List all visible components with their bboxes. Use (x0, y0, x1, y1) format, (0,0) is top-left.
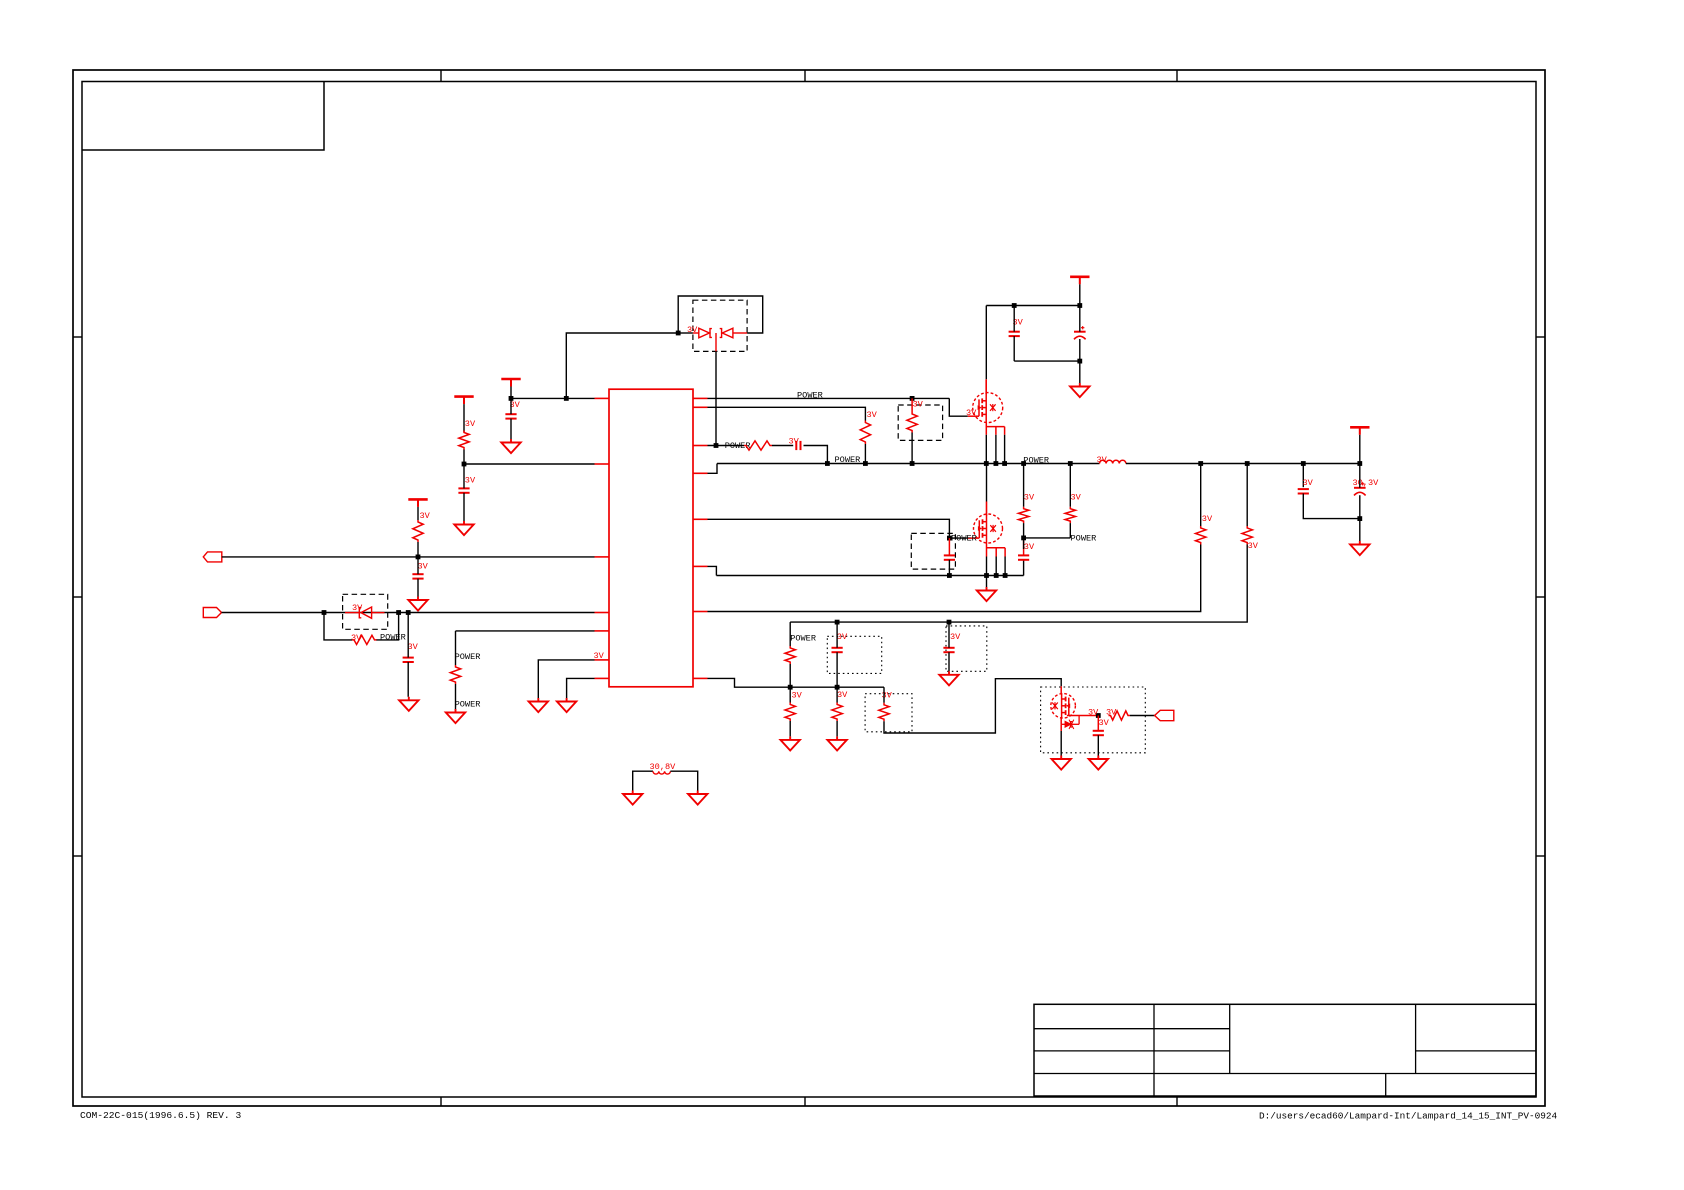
resistor R10 (1018, 507, 1028, 523)
junction pin2 (462, 462, 467, 467)
junction pin3R (714, 443, 719, 448)
wire R3 bypass path (324, 613, 352, 640)
wire Q1 sources to rail (985, 435, 987, 464)
wire POWER resistor corner (789, 622, 791, 646)
junction D1 right (396, 610, 401, 615)
svg-text:3V: 3V (1099, 718, 1110, 728)
power symbol VCC3 (408, 499, 427, 507)
svg-text:3V: 3V (950, 632, 961, 642)
inductor L1 (1100, 460, 1126, 463)
svg-text:POWER: POWER (797, 391, 823, 401)
junction rail Q1s3 (1002, 461, 1007, 466)
ground below Q2 (977, 587, 996, 601)
resistor R11 (1065, 507, 1075, 523)
connector P3 output (1155, 710, 1174, 720)
diode D3 source-gate (1061, 716, 1079, 730)
wire C9 top to junction (1023, 538, 1025, 556)
junction C6 top (1012, 303, 1017, 308)
capacitor C2 (458, 488, 469, 492)
wire VCC4 down (1079, 284, 1081, 305)
dashed box around C8 (911, 533, 955, 569)
wire pin3R net (708, 445, 745, 447)
junction Q3 gate net (1096, 713, 1101, 718)
ground right (1350, 541, 1369, 555)
wire R13 column (1246, 464, 1248, 527)
wire pin1 left horizontal (511, 397, 595, 399)
junction rail R11 (1068, 461, 1073, 466)
connector P2 input (203, 608, 221, 618)
junction rail C10 (1301, 461, 1306, 466)
resistor R6 (911, 398, 913, 412)
svg-text:3V: 3V (1097, 455, 1108, 465)
wire pin7 left then down (567, 678, 595, 698)
IC U1 right pin stubs (693, 398, 708, 678)
wire C3 leads (417, 557, 419, 574)
wire R1 to junction (463, 450, 465, 464)
svg-text:3V: 3V (1202, 514, 1213, 524)
svg-text:3V: 3V (867, 410, 878, 420)
wire TVS left lead black (678, 332, 693, 334)
dashed box around TVS D2 (693, 300, 747, 351)
power symbol VCC4 (1070, 277, 1089, 285)
border zone tick right 1 (1536, 336, 1545, 338)
wire C10 column (1302, 464, 1304, 488)
title block row line 2 (1034, 1050, 1230, 1052)
wire R11 leads (1069, 464, 1071, 507)
title block full row line (1034, 1073, 1536, 1075)
wire pin2R horizontal (708, 407, 866, 420)
svg-text:3V: 3V (465, 476, 476, 486)
junction Q2 gate net (947, 536, 952, 541)
svg-text:3V: 3V (1024, 542, 1035, 552)
border zone tick left 1 (73, 336, 82, 338)
wire Q3 source to ground (1060, 724, 1062, 731)
diode D1 (345, 607, 385, 618)
ground below C13 (939, 671, 958, 685)
svg-text:3V: 3V (789, 436, 800, 446)
wire C1 leads (510, 398, 512, 414)
wire C14 leads (1097, 716, 1099, 731)
wire C8 leads (948, 538, 950, 555)
wire lower rail (716, 575, 1023, 577)
border zone tick bottom 1 (440, 1097, 442, 1106)
dotted box around C13 (946, 626, 987, 671)
dotted box around C12 (827, 636, 881, 673)
wire R12 column (1200, 464, 1202, 527)
wire R4 to ground (455, 684, 457, 709)
wire Q1 gate stub red (968, 415, 979, 417)
svg-text:3V: 3V (465, 419, 476, 429)
junction C12 top (835, 620, 840, 625)
wire R18 to connector (1130, 715, 1155, 717)
svg-text:POWER: POWER (380, 633, 406, 643)
wire Q2 drain (986, 464, 988, 502)
wire pin3 from connector P1 (222, 556, 595, 558)
wire pin5R to Q2 gate (708, 519, 968, 538)
wire R17 to Q3 drain (884, 679, 1061, 733)
wire pin1R POWER net (708, 397, 950, 399)
ground bead right (688, 791, 707, 805)
ground below C3 (408, 597, 427, 611)
resistor R2 (413, 520, 423, 542)
junction lower rail Q2s1 (984, 573, 989, 578)
junction pin3 net (416, 555, 421, 560)
svg-text:3V: 3V (1024, 492, 1035, 502)
svg-text:3V: 3V (1248, 541, 1259, 551)
border zone tick left 2 (73, 596, 82, 598)
ground below C1 (501, 439, 520, 453)
junction rail C5 (825, 461, 830, 466)
junction rail R12 (1198, 461, 1203, 466)
wire Q2 gate stub red (968, 537, 980, 539)
connector P1 input (203, 552, 222, 562)
svg-text:3V: 3V (408, 642, 419, 652)
junction rail Q1s1 (984, 461, 989, 466)
wire VCC2 to R1 (463, 404, 465, 432)
wire TVS outer loop (678, 296, 763, 333)
capacitor C9 (1018, 555, 1029, 559)
resistor R12 (1196, 526, 1206, 545)
junction R14 bottom (788, 685, 793, 690)
title block vertical divider 2 (1229, 1004, 1231, 1073)
junction VCC4 (1077, 303, 1082, 308)
wire C7 leads (1079, 306, 1081, 332)
svg-text:POWER: POWER (455, 652, 481, 662)
ground bead left (623, 791, 642, 805)
wire R15 leads (789, 687, 791, 702)
wire R16 leads (836, 687, 838, 702)
wire VCC3 to R2 (417, 507, 419, 520)
capacitor C5 (796, 441, 800, 450)
svg-text:3V: 3V (837, 632, 848, 642)
junction R10 C9 (1021, 536, 1026, 541)
junction C13 top (947, 620, 952, 625)
outer border frame (73, 70, 1545, 1106)
svg-text:3V: 3V (913, 400, 924, 410)
ground pin7 (557, 698, 576, 712)
junction C7 bottom (1077, 359, 1082, 364)
svg-text:3V: 3V (418, 562, 429, 572)
title block outline (1034, 1004, 1536, 1096)
ground below R4 (446, 709, 465, 723)
capacitor C10 (1298, 489, 1309, 493)
capacitor C12 (832, 648, 843, 652)
border zone tick bottom 3 (1176, 1097, 1178, 1106)
resistor R4 (450, 665, 460, 684)
wire C11 leads (1359, 464, 1361, 488)
capacitor C14 (1093, 731, 1104, 735)
wire power VCC1 to pin1 net (510, 387, 512, 399)
svg-text:3V: 3V (687, 325, 698, 335)
wire R13 down to mid rail (790, 545, 1247, 623)
capacitor C7 electrolytic (1074, 326, 1086, 339)
svg-text:POWER: POWER (455, 700, 481, 710)
dashed box around R6 (898, 405, 942, 440)
capacitor C3 (412, 574, 423, 578)
ground pin6 (529, 698, 548, 712)
wire R2 to junction (417, 542, 419, 557)
svg-text:POWER: POWER (1023, 455, 1049, 465)
wire R14 to bottom rail (789, 664, 791, 687)
border zone tick left 3 (73, 855, 82, 857)
border zone tick right 3 (1536, 855, 1545, 857)
wire C9 column (1023, 560, 1025, 576)
capacitor C4 (403, 658, 414, 662)
wire pin8R to bottom rail (708, 678, 885, 687)
capacitor C1 (505, 414, 516, 418)
wire POWER rail right part (1126, 463, 1360, 465)
resistor R3 (352, 635, 377, 644)
svg-text:POWER: POWER (835, 455, 861, 465)
title block vertical divider 3 (1415, 1004, 1417, 1073)
ground below C2 (454, 521, 473, 535)
wire C11 to ground (1359, 519, 1361, 541)
svg-text:30,3V: 30,3V (1353, 478, 1380, 488)
junction rail R6 (910, 461, 915, 466)
ground below C14 (1089, 756, 1108, 770)
svg-text:3V: 3V (1071, 492, 1082, 502)
junction C12 bottom (835, 685, 840, 690)
junction rail R5 (863, 461, 868, 466)
wire Q2 source bundle (987, 543, 1006, 557)
capacitor C11 electrolytic (1354, 482, 1366, 495)
wire pin2 left horizontal (464, 463, 595, 465)
ground below R15 (781, 736, 800, 750)
wire Q2 sources to lower rail (986, 557, 988, 576)
wire R6 to rail (911, 433, 913, 464)
wire Q3 source down (1060, 718, 1062, 724)
border zone tick bottom 2 (804, 1097, 806, 1106)
dashed box around diode D1 (343, 594, 388, 629)
top-left revision box (82, 82, 324, 151)
capacitor C13 (943, 648, 954, 652)
wire bead left (633, 771, 653, 790)
junction rail R13 (1245, 461, 1250, 466)
wire C6 leads (1013, 306, 1015, 332)
wire C2 leads (463, 464, 465, 488)
border zone tick top 1 (440, 70, 442, 82)
wire POWER rail (717, 463, 1100, 465)
capacitor C8 (944, 555, 955, 559)
wire R5 to rail (864, 444, 866, 464)
border zone tick top 3 (1176, 70, 1178, 82)
title block right column row line (1416, 1050, 1536, 1052)
power symbol VCC1 (501, 379, 520, 387)
wire C10 to C11 bottom link (1303, 494, 1360, 519)
wire pin1R jog down to Q1 gate (949, 398, 968, 416)
wire C12 leads (836, 622, 838, 648)
ground below C4 (399, 697, 418, 711)
wire bottom cap rail (1014, 360, 1080, 362)
junction rail Q1s2 (994, 461, 999, 466)
svg-text:3V: 3V (594, 651, 605, 661)
wire Q1 drain from top corner (985, 306, 987, 380)
ferrite bead FB1 (653, 771, 670, 774)
transistor Q2 (974, 514, 1003, 543)
wire C5 to rail (804, 446, 828, 464)
wire Q3 drain red (1060, 686, 1062, 693)
border zone tick top 2 (804, 70, 806, 82)
resistor R18 (1109, 711, 1131, 720)
junction pin1-VCC1 (509, 396, 514, 401)
ground below Q3 (1052, 756, 1071, 770)
svg-text:COM-22C-015(1996.6.5) REV. 3: COM-22C-015(1996.6.5) REV. 3 (80, 1110, 241, 1121)
wire C4 leads (407, 613, 409, 658)
border zone tick right 2 (1536, 596, 1545, 598)
wire R10 leads (1023, 464, 1025, 507)
svg-text:3V: 3V (792, 690, 803, 700)
resistor R5 (860, 421, 870, 445)
junction R6 tap (910, 396, 915, 401)
junction C11 bottom (1357, 516, 1362, 521)
svg-text:D:/users/ecad60/Lampard-Int/La: D:/users/ecad60/Lampard-Int/Lampard_14_1… (1259, 1111, 1558, 1122)
svg-text:3V: 3V (837, 690, 848, 700)
resistor R15 (785, 703, 795, 722)
wire R11 gate link (1024, 537, 1071, 539)
transistor Q3 (1051, 694, 1076, 719)
svg-text:POWER: POWER (790, 633, 816, 643)
wire pin4R to rail start (708, 464, 718, 474)
wire Q3 gate to junction (1067, 715, 1098, 717)
resistor R13 (1242, 526, 1252, 545)
wire pin4 from connector P2 (222, 612, 595, 614)
svg-text:POWER: POWER (1071, 533, 1097, 543)
svg-text:3V: 3V (420, 511, 431, 521)
inner border frame (82, 82, 1536, 1098)
svg-text:3V: 3V (882, 690, 893, 700)
wire Q2 ground branch (986, 576, 988, 588)
IC U1 left pin stubs (595, 398, 610, 678)
dotted box around R17 (865, 694, 912, 732)
TVS diode pair D2 (693, 328, 747, 351)
resistor R17 (879, 703, 889, 721)
ground top-right (1070, 383, 1089, 397)
wire TVS center tap down (715, 351, 717, 445)
wire R12 down to pin7R net (708, 545, 1201, 612)
wire R17 top lead (883, 687, 885, 703)
resistor R14 (785, 646, 795, 664)
junction pin1-TVS branch (564, 396, 569, 401)
power symbol VCC5 (1350, 427, 1369, 435)
wire pin6R to lower rail (708, 566, 717, 575)
junction lower rail Q2s3 (1003, 573, 1008, 578)
svg-text:3V: 3V (1088, 707, 1099, 717)
wire R7 to C5 (772, 445, 793, 447)
resistor R16 (832, 703, 842, 722)
transistor Q1 (973, 393, 1003, 423)
wire Q1 source bundle (986, 423, 1004, 435)
wire pin6 left then down (538, 660, 594, 698)
svg-text:3V: 3V (1303, 478, 1314, 488)
power symbol VCC2 (454, 397, 473, 405)
wire pin5 down to R4 (455, 631, 457, 665)
junction D1 left (322, 610, 327, 615)
resistor R1 (459, 431, 469, 450)
dotted box around Q3 (1041, 687, 1146, 753)
junction rail C11 (1357, 461, 1362, 466)
IC U1 body (609, 389, 693, 687)
wire VCC5 to rail (1359, 435, 1361, 464)
title block bottom row divider (1385, 1074, 1387, 1097)
wire to ground top-right (1079, 361, 1081, 383)
capacitor C6 (1009, 332, 1020, 336)
wire top cap rail (986, 305, 1080, 307)
junction C4 tap (406, 610, 411, 615)
ground below R16 (827, 736, 846, 750)
junction lower rail C8 (947, 573, 952, 578)
wire bead right (670, 771, 697, 790)
junction lower rail Q2s2 (994, 573, 999, 578)
title block row line 1 (1034, 1028, 1230, 1030)
svg-text:3V: 3V (351, 633, 362, 643)
junction rail R10 (1021, 461, 1026, 466)
wire C13 leads (948, 622, 950, 648)
resistor R7 (744, 441, 772, 450)
junction TVS left (676, 331, 681, 336)
wire pin5 left horizontal (456, 630, 595, 632)
wire TVS left branch (566, 333, 678, 398)
title block vertical divider 1 (1153, 1004, 1155, 1096)
